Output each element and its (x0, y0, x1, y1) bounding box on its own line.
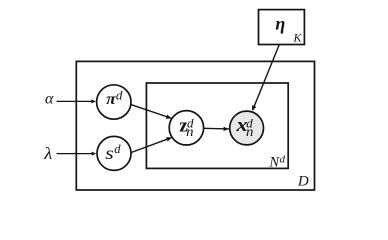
wire pi to z (130, 104, 173, 118)
svg-text:λ: λ (43, 144, 52, 163)
plate N^d (inner) (146, 83, 288, 168)
arrowhead pi-z (166, 115, 172, 119)
arrowhead z-x (224, 127, 229, 131)
svg-text:d: d (116, 87, 123, 102)
node x_n^d (observed) (230, 111, 264, 145)
plate D (outer) (76, 61, 314, 190)
svg-text:d: d (280, 153, 286, 165)
wire eta to x (253, 45, 280, 111)
svg-text:n: n (186, 125, 193, 140)
wire lambda to s (57, 153, 94, 155)
arrowhead lambda-s (92, 152, 97, 156)
wire z to x (204, 127, 230, 130)
svg-text:s: s (105, 143, 114, 163)
arrowhead alpha-pi (91, 99, 96, 103)
svg-text:d: d (114, 142, 121, 156)
svg-text:K: K (293, 31, 303, 45)
arrowhead eta-x (252, 105, 256, 111)
svg-text:α: α (45, 91, 54, 108)
node z_n^d (169, 111, 203, 145)
svg-text:n: n (246, 125, 253, 140)
svg-text:D: D (297, 174, 309, 190)
wire alpha to pi (57, 100, 94, 102)
plate K box (eta prior) (259, 10, 305, 45)
arrowhead s-z (166, 137, 172, 141)
svg-text:η: η (275, 14, 285, 34)
node s^d (97, 136, 131, 170)
node pi^d (97, 85, 131, 119)
wire s to z (129, 137, 173, 153)
